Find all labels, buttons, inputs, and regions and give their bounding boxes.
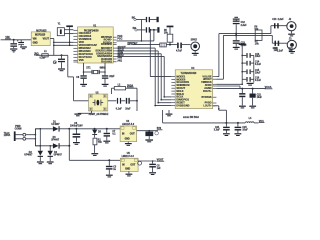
svg-text:DVSS/GND: DVSS/GND xyxy=(176,104,189,107)
svg-text:LM1117-5.0: LM1117-5.0 xyxy=(122,124,135,126)
node 3V3A xyxy=(127,84,134,87)
svg-text:OUT: OUT xyxy=(130,133,135,135)
svg-text:IN: IN xyxy=(122,133,125,135)
diode D1 xyxy=(51,122,69,132)
ground xyxy=(145,139,153,142)
capacitor C22 xyxy=(239,88,245,106)
svg-text:VSS: VSS xyxy=(79,59,84,62)
ground xyxy=(37,161,44,164)
node 5V0 xyxy=(157,127,163,130)
U1 right net labels xyxy=(117,36,126,63)
svg-text:10uF: 10uF xyxy=(255,56,261,58)
label PWR CONN xyxy=(15,126,22,130)
svg-text:PGD: PGD xyxy=(117,36,122,38)
zener D5 xyxy=(92,129,102,138)
wire SPKOUT xyxy=(134,44,160,46)
wire 3V3 down to oscillator xyxy=(68,55,89,101)
svg-text:RC6/SPK: RC6/SPK xyxy=(101,43,112,46)
ground xyxy=(47,161,54,164)
diode D2 xyxy=(24,146,43,161)
ground xyxy=(91,153,98,156)
crystal Y1 xyxy=(57,23,73,35)
svg-text:1uF: 1uF xyxy=(274,50,279,52)
svg-text:BYPASS: BYPASS xyxy=(201,96,211,99)
wire 3V3 regulator rail xyxy=(69,159,120,161)
svg-text:GND: GND xyxy=(33,42,38,44)
resistor R5 xyxy=(164,26,174,46)
diode D4 xyxy=(48,146,63,161)
power flag VDD xyxy=(66,25,73,46)
U1 left pin stubs xyxy=(73,30,77,62)
capacitor C12 xyxy=(233,20,247,35)
microcontroller U1 xyxy=(78,26,114,63)
resistor R6 xyxy=(254,27,262,46)
wire U4 HP to output R xyxy=(216,35,272,79)
resistor R1 xyxy=(93,138,102,153)
capacitor C6 xyxy=(70,123,83,142)
capacitor C1 xyxy=(10,40,17,48)
ground U3 xyxy=(125,142,132,146)
wire 3V3 rail xyxy=(36,54,68,56)
svg-text:C10: C10 xyxy=(272,19,277,21)
capacitor C14 xyxy=(241,61,261,66)
svg-text:AN1: AN1 xyxy=(117,60,122,63)
ground xyxy=(149,172,156,175)
svg-text:1uF: 1uF xyxy=(289,50,294,52)
svg-text:PGC: PGC xyxy=(117,39,122,41)
regulator U3 xyxy=(120,121,137,142)
capacitor C13A xyxy=(241,53,261,58)
audio codec U4 xyxy=(175,67,212,109)
capacitor C18 xyxy=(125,98,137,110)
ground xyxy=(192,53,199,56)
resistor R4 xyxy=(160,43,177,47)
capacitor C10 xyxy=(272,19,284,28)
svg-text:10uF: 10uF xyxy=(255,73,261,75)
wire regulator output xyxy=(50,39,54,56)
svg-text:2.2uF: 2.2uF xyxy=(277,50,284,52)
capacitor C26 xyxy=(106,160,117,174)
ground U4 xyxy=(166,110,173,116)
regulator U6 MCP1825 xyxy=(31,30,50,45)
capacitor C2 xyxy=(17,40,24,46)
capacitor C11 xyxy=(273,41,284,53)
ground xyxy=(249,106,256,109)
U1 left pin names xyxy=(79,32,98,62)
svg-text:1uF: 1uF xyxy=(157,168,162,170)
svg-text:1000uF/16V: 1000uF/16V xyxy=(70,126,83,128)
capacitor C23 xyxy=(250,88,263,106)
ground cap stack xyxy=(247,55,254,85)
capacitor C7 xyxy=(104,129,117,141)
svg-text:10uF: 10uF xyxy=(125,108,131,110)
capacitor C19 xyxy=(145,131,158,140)
svg-text:10uF: 10uF xyxy=(242,129,248,131)
ground jacks xyxy=(288,31,295,37)
node VOUT xyxy=(157,159,165,162)
connector J4 xyxy=(14,131,26,141)
diode D3 xyxy=(49,137,69,149)
ground xyxy=(58,68,65,71)
svg-text:2.2uF: 2.2uF xyxy=(278,19,285,21)
ground U2 xyxy=(74,111,91,116)
ground xyxy=(235,133,242,136)
svg-text:AN0: AN0 xyxy=(117,57,122,60)
svg-text:SPKR: SPKR xyxy=(191,40,198,42)
svg-text:0.1uF: 0.1uF xyxy=(255,80,262,82)
svg-text:CONN: CONN xyxy=(15,128,22,130)
svg-text:0.1uF: 0.1uF xyxy=(255,64,262,66)
wire AC1 xyxy=(26,129,53,136)
inductor L4 xyxy=(245,117,258,123)
ground xyxy=(73,142,80,145)
ground xyxy=(223,133,230,136)
ground xyxy=(20,46,27,49)
power flag VCC xyxy=(239,43,246,84)
U4 right pin stubs xyxy=(213,77,217,106)
svg-text:2.2uF: 2.2uF xyxy=(241,25,248,27)
node VCCA xyxy=(265,86,273,89)
ground xyxy=(239,106,246,109)
capacitor C27 xyxy=(138,161,142,165)
svg-text:8MHz: 8MHz xyxy=(100,68,107,70)
svg-text:LOUT+: LOUT+ xyxy=(203,105,212,108)
ground xyxy=(106,175,113,178)
wire U4 HP to output L xyxy=(216,34,271,77)
svg-text:22pF: 22pF xyxy=(109,76,115,78)
svg-text:UF4007: UF4007 xyxy=(54,153,63,156)
svg-text:115VA: 115VA xyxy=(4,134,11,137)
svg-text:0.1uF: 0.1uF xyxy=(116,108,123,110)
svg-text:C24: C24 xyxy=(215,126,220,129)
capacitor C15 xyxy=(241,69,261,74)
svg-text:IN: IN xyxy=(122,164,125,166)
capacitor C13B xyxy=(233,34,247,47)
svg-text:GND: GND xyxy=(125,169,130,171)
crystal oscillator U2 xyxy=(89,92,108,111)
svg-text:VOUT: VOUT xyxy=(43,39,50,41)
ground xyxy=(10,48,17,52)
capacitor C4 xyxy=(53,54,65,68)
wire staircase SCLK xyxy=(117,51,172,104)
U1 right pin names xyxy=(95,36,112,64)
wire to bottom jack xyxy=(272,35,287,43)
svg-text:10uF: 10uF xyxy=(257,97,263,99)
svg-text:UF4007: UF4007 xyxy=(51,138,60,141)
capacitor C25 xyxy=(235,123,249,133)
svg-text:ROUT+: ROUT+ xyxy=(203,90,212,93)
node VIN xyxy=(5,36,11,39)
svg-text:LM1117-3.3: LM1117-3.3 xyxy=(122,156,135,158)
svg-text:UF4007: UF4007 xyxy=(24,153,33,156)
inductor L1 xyxy=(40,51,49,59)
wire U4 LOUT down xyxy=(213,106,227,123)
capacitor C9 xyxy=(102,75,115,83)
svg-text:MCP1825: MCP1825 xyxy=(35,34,46,36)
node A xyxy=(13,39,15,41)
wire DC rail xyxy=(68,128,120,161)
capacitor C16 xyxy=(242,77,261,82)
wire staircase MOSI xyxy=(117,56,172,97)
svg-text:OUT: OUT xyxy=(130,164,135,166)
capacitor C5 xyxy=(149,161,161,172)
ground U5 xyxy=(126,171,133,176)
svg-text:2.2uF: 2.2uF xyxy=(241,45,248,47)
wire staircase SDOUT xyxy=(117,48,172,106)
wire to U1 VDD pins xyxy=(53,42,73,47)
ground above C12 xyxy=(233,17,240,20)
wire input to U1 xyxy=(117,20,154,42)
node 3V3 xyxy=(34,52,40,55)
U4 left pin stubs xyxy=(171,77,175,106)
svg-text:TLV320AIC310: TLV320AIC310 xyxy=(181,72,198,75)
U4 right pin names xyxy=(201,75,212,107)
wire L2 to C18 xyxy=(136,88,138,111)
ground below C13s xyxy=(233,47,240,50)
wire to top jack xyxy=(271,26,287,34)
wire xyxy=(1,39,32,41)
wire AVDD rail xyxy=(216,84,243,86)
inductor L2 xyxy=(112,85,138,94)
svg-text:3.3uF: 3.3uF xyxy=(214,129,221,131)
crystal XT1 8MHz xyxy=(83,63,107,75)
label transformer xyxy=(4,132,11,137)
svg-text:RA1/AN1: RA1/AN1 xyxy=(101,61,112,64)
wire staircase SDIN xyxy=(117,54,172,101)
capacitor C24 xyxy=(214,123,230,133)
jack J2 xyxy=(287,19,296,31)
wire U3 output xyxy=(137,130,158,132)
wire U5 output xyxy=(138,160,156,162)
wire AGND to VCCA rail xyxy=(216,86,266,89)
svg-text:0.1uF: 0.1uF xyxy=(40,58,47,60)
speaker jack SPKR xyxy=(191,40,200,53)
varistor RV1 xyxy=(35,128,41,147)
line input row 1 xyxy=(132,17,159,22)
regulator U5 xyxy=(120,153,138,171)
node VO1 xyxy=(259,120,265,123)
capacitor C29 xyxy=(176,43,191,53)
wire AC2 xyxy=(26,138,53,146)
U1 right pin stubs xyxy=(113,37,116,62)
jack J3 xyxy=(287,38,296,53)
svg-text:XT1: XT1 xyxy=(86,68,91,70)
ground xyxy=(102,84,109,87)
wire MCLK to U4 xyxy=(150,30,171,77)
ground xyxy=(103,141,110,144)
capacitor C17 xyxy=(108,98,126,110)
capacitor C8 xyxy=(76,75,87,83)
wire speaker rail xyxy=(163,110,246,124)
labels C20 C21 xyxy=(274,48,294,52)
U4 left pin names xyxy=(176,75,189,107)
ground xyxy=(80,84,87,87)
line input row 2 xyxy=(133,27,160,32)
svg-text:GND: GND xyxy=(125,139,130,141)
svg-text:VIN: VIN xyxy=(33,39,37,41)
net label SPKOUT xyxy=(128,42,139,45)
svg-text:4.7uF: 4.7uF xyxy=(176,50,183,53)
svg-text:UF4007: UF4007 xyxy=(51,123,60,126)
svg-text:xxxxx BN BGA: xxxxx BN BGA xyxy=(183,116,199,119)
